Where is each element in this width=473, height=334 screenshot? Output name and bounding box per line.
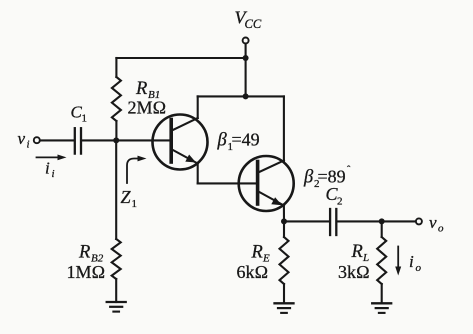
svg-text:1MΩ: 1MΩ (67, 262, 106, 282)
svg-text:1: 1 (132, 198, 138, 210)
svg-text:o: o (438, 223, 444, 235)
label RL value 3k (338, 242, 370, 282)
label C1 (71, 103, 88, 125)
svg-text:β: β (303, 168, 314, 188)
wire top rail RB1 to VCC column (116, 57, 245, 59)
resistor RB1 (112, 58, 121, 140)
wire VCC vertical (245, 44, 247, 97)
output terminal vo circle (416, 218, 422, 224)
label C2 (326, 184, 343, 208)
svg-text:R: R (78, 243, 90, 263)
transistor Q2 (239, 156, 294, 211)
label io (409, 252, 422, 274)
wire base node to Q1 base (116, 139, 170, 141)
label RE value 6k (237, 243, 271, 283)
svg-text:o: o (416, 262, 422, 274)
svg-text:v: v (18, 129, 26, 148)
resistor RE (280, 221, 289, 303)
svg-text:ˆ: ˆ (347, 165, 351, 176)
label vo (429, 213, 444, 235)
label Z1 (121, 187, 138, 210)
arrow io output current (395, 247, 401, 276)
svg-text:β: β (217, 131, 228, 151)
ground RB2 (107, 302, 126, 312)
node base junction dot (113, 137, 119, 143)
VCC terminal circle (243, 38, 249, 44)
svg-text:R: R (351, 242, 363, 262)
svg-text:i: i (52, 168, 55, 180)
svg-text:2: 2 (337, 196, 343, 208)
label beta1 gain (217, 130, 260, 154)
wire Q2 collector up (283, 96, 285, 161)
ground RL (372, 303, 391, 313)
junction dot collector rail (243, 93, 249, 99)
wire Q1 collector up (197, 96, 199, 118)
resistor RL (377, 221, 386, 303)
transistor Q1 (153, 115, 208, 170)
wire Q1 emitter down (197, 164, 199, 184)
wire Q1 emitter to Q2 base (198, 182, 257, 184)
svg-text:R: R (135, 79, 147, 99)
svg-text:=49: =49 (232, 130, 260, 150)
junction dot VCC top rail (243, 55, 249, 61)
svg-text:i: i (409, 252, 414, 271)
svg-text:v: v (429, 213, 437, 232)
svg-text:Z: Z (121, 187, 132, 207)
label VCC (235, 8, 262, 32)
wire C1 to base node (82, 139, 116, 141)
label RB2 value 1M (67, 243, 106, 283)
wire emitter node to C2 (284, 220, 329, 222)
svg-text:2MΩ: 2MΩ (128, 98, 167, 118)
label beta2 gain (303, 165, 351, 190)
wire C2 to output terminal (338, 220, 416, 222)
svg-text:i: i (27, 139, 30, 151)
label vi (18, 129, 30, 151)
svg-text:6kΩ: 6kΩ (237, 262, 269, 282)
capacitor C1 (75, 128, 81, 153)
capacitor C2 (330, 209, 336, 235)
junction dot RL node (379, 218, 385, 224)
wire input to C1 (40, 139, 73, 141)
junction dot emitter node (281, 218, 287, 224)
arrow Z1 impedance pointer (127, 156, 147, 183)
svg-text:i: i (45, 159, 50, 178)
ground RE (275, 303, 294, 313)
resistor RB2 (112, 140, 121, 302)
wire Q2 emitter down (283, 206, 285, 222)
label RB1 value 2M (128, 79, 167, 118)
label ii (45, 159, 55, 181)
wire collector rail (198, 95, 284, 97)
input terminal vi circle (34, 137, 40, 143)
svg-text:1: 1 (82, 113, 88, 125)
svg-text:3kΩ: 3kΩ (338, 262, 370, 282)
svg-text:CC: CC (245, 17, 262, 31)
arrow ii input current (37, 155, 67, 161)
svg-text:R: R (251, 243, 263, 263)
